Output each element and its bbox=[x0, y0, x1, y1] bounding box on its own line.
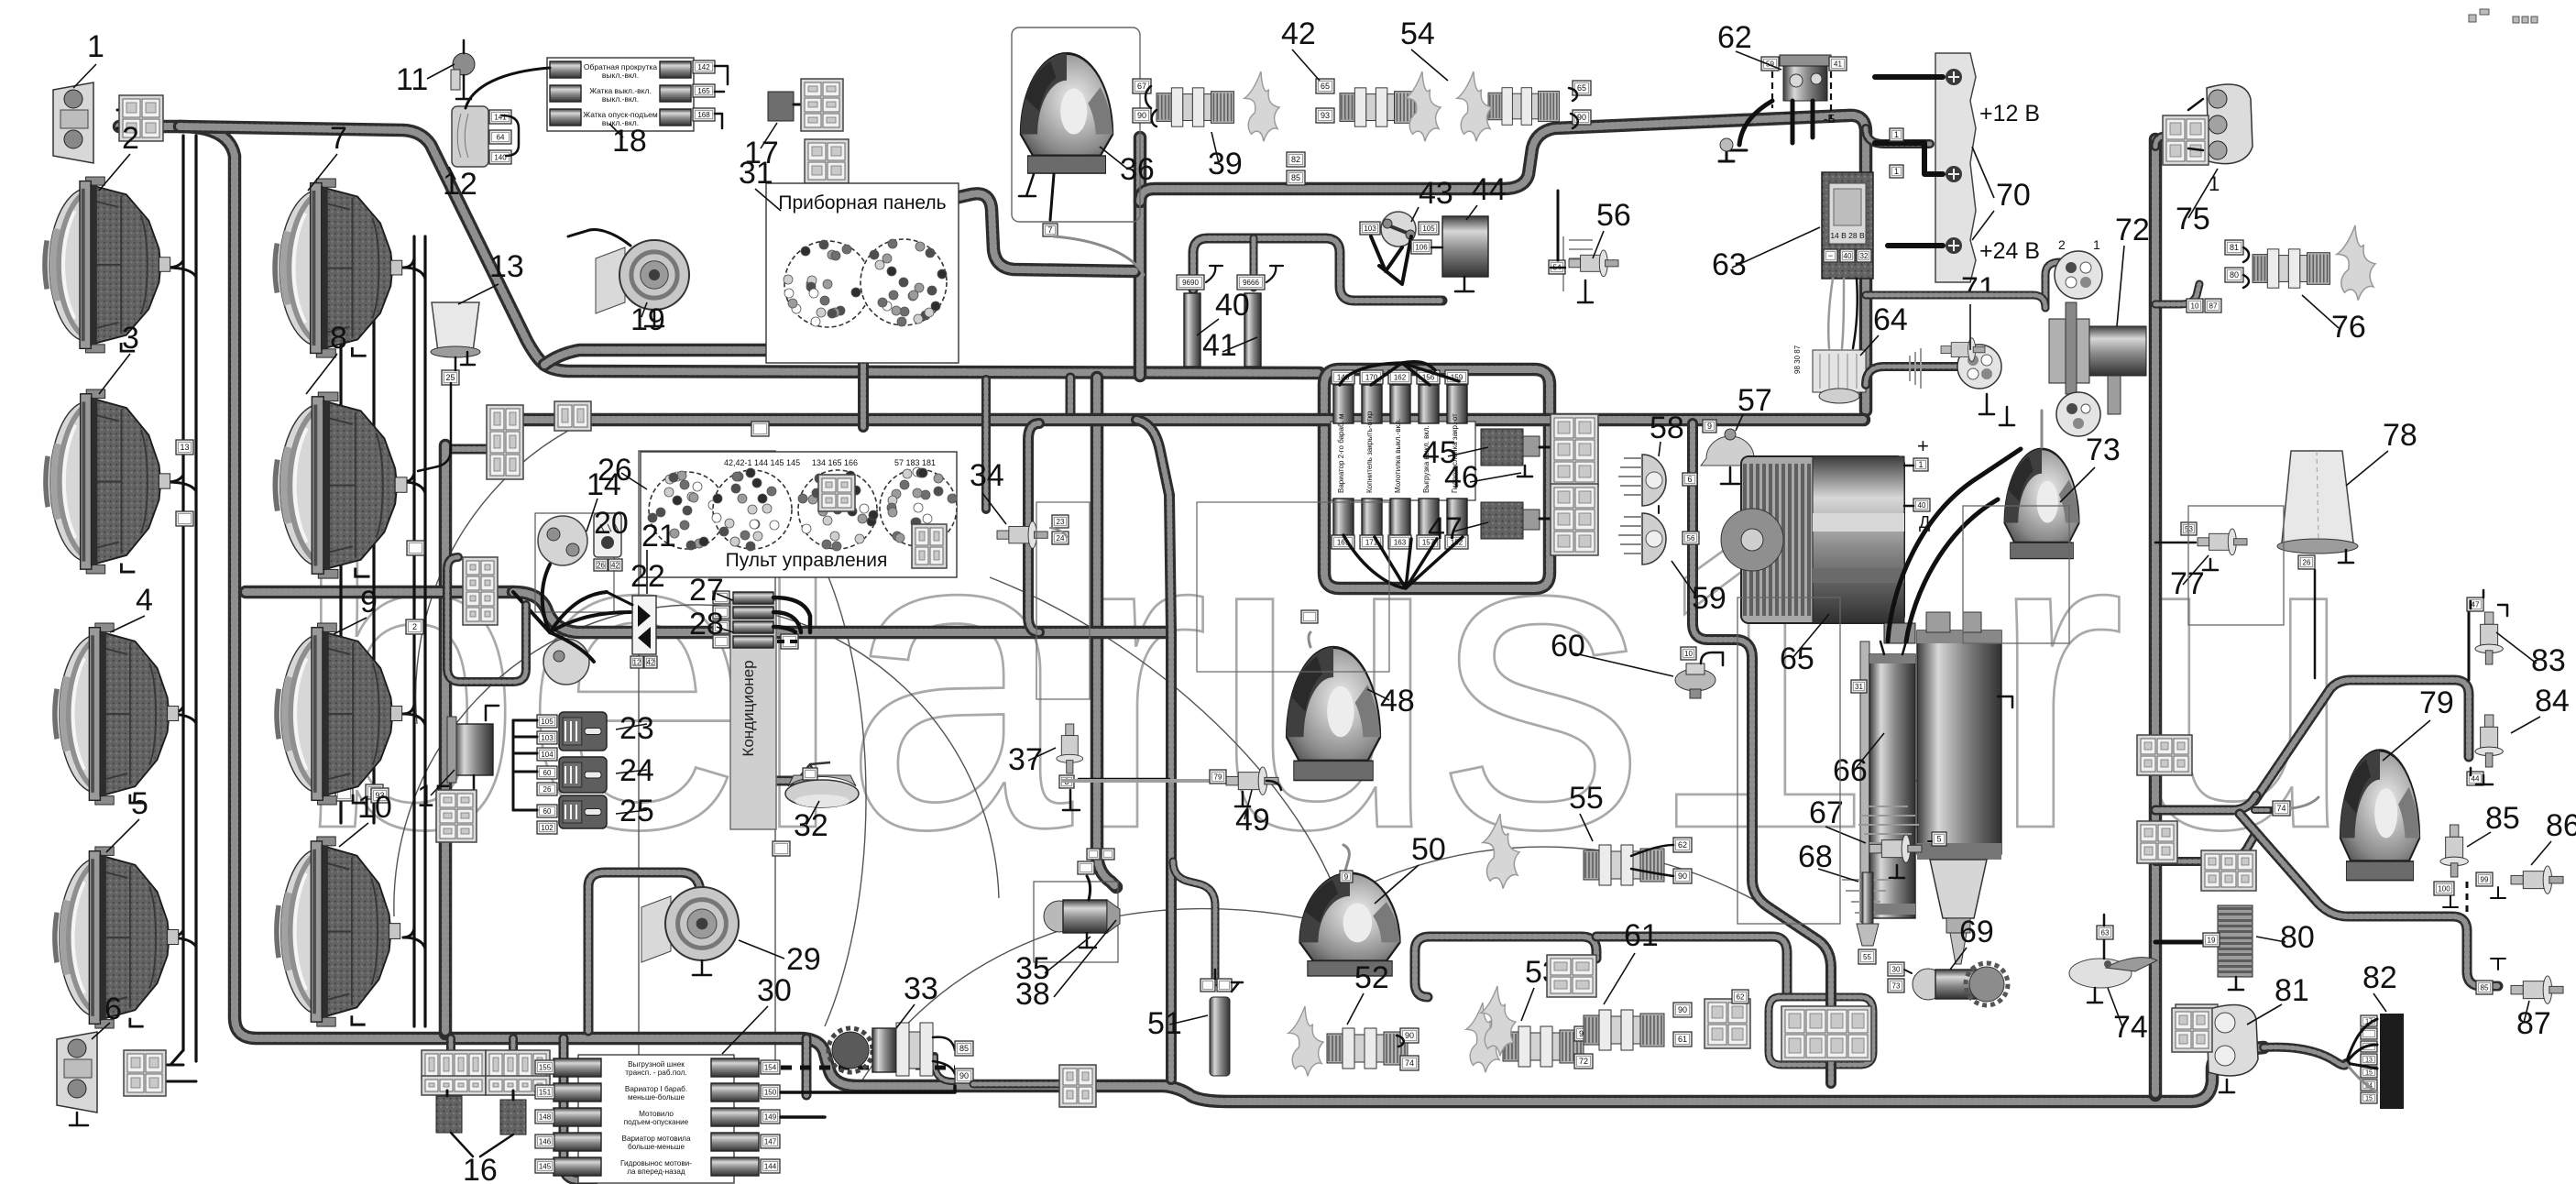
svg-text:41: 41 bbox=[1834, 60, 1842, 68]
svg-text:30: 30 bbox=[1892, 965, 1901, 973]
svg-text:Пульт управления: Пульт управления bbox=[726, 550, 888, 571]
svg-text:57: 57 bbox=[1737, 383, 1772, 418]
svg-text:42: 42 bbox=[647, 658, 655, 666]
svg-text:83: 83 bbox=[2531, 643, 2566, 678]
svg-text:144: 144 bbox=[764, 1162, 777, 1170]
svg-text:61: 61 bbox=[1624, 918, 1659, 953]
svg-text:выкл.-вкл.: выкл.-вкл. bbox=[602, 71, 639, 80]
svg-text:74: 74 bbox=[1405, 1058, 1414, 1068]
svg-text:90: 90 bbox=[1678, 1005, 1687, 1014]
svg-text:5: 5 bbox=[131, 786, 148, 821]
svg-text:102: 102 bbox=[541, 824, 554, 832]
svg-text:68: 68 bbox=[1798, 839, 1833, 874]
svg-text:57 183 181: 57 183 181 bbox=[894, 458, 936, 467]
svg-text:26: 26 bbox=[2303, 558, 2311, 566]
svg-text:13: 13 bbox=[180, 443, 189, 452]
svg-text:2: 2 bbox=[122, 121, 139, 156]
svg-text:99: 99 bbox=[2481, 875, 2489, 883]
svg-text:72: 72 bbox=[2115, 213, 2150, 247]
svg-text:49: 49 bbox=[1235, 803, 1270, 838]
svg-text:85: 85 bbox=[2481, 983, 2489, 992]
svg-text:11: 11 bbox=[396, 62, 428, 97]
svg-text:103: 103 bbox=[541, 734, 554, 742]
svg-text:3: 3 bbox=[122, 321, 139, 356]
svg-text:12: 12 bbox=[443, 167, 477, 202]
svg-text:19: 19 bbox=[630, 302, 665, 337]
svg-text:42: 42 bbox=[1281, 16, 1316, 51]
svg-text:34: 34 bbox=[970, 458, 1004, 493]
svg-text:трансп. - раб.пол.: трансп. - раб.пол. bbox=[625, 1069, 686, 1077]
svg-text:64: 64 bbox=[497, 133, 505, 141]
svg-text:42,42-1 144 145 145: 42,42-1 144 145 145 bbox=[724, 458, 800, 467]
svg-text:−: − bbox=[1783, 106, 1791, 120]
svg-text:+12 В: +12 В bbox=[1979, 101, 2040, 126]
svg-text:149: 149 bbox=[764, 1113, 777, 1121]
svg-text:2: 2 bbox=[2058, 237, 2066, 252]
svg-text:24: 24 bbox=[1057, 534, 1065, 543]
svg-text:1: 1 bbox=[1894, 130, 1899, 139]
svg-text:9666: 9666 bbox=[1243, 279, 1259, 287]
svg-text:2: 2 bbox=[412, 622, 417, 631]
svg-text:90: 90 bbox=[959, 1071, 969, 1080]
svg-text:меньше-больше: меньше-больше bbox=[628, 1093, 685, 1102]
svg-text:63: 63 bbox=[1712, 247, 1747, 282]
svg-text:141: 141 bbox=[494, 113, 507, 121]
svg-text:90: 90 bbox=[1678, 872, 1687, 881]
svg-text:54: 54 bbox=[1400, 16, 1435, 51]
svg-text:10: 10 bbox=[1684, 650, 1693, 658]
svg-text:26: 26 bbox=[597, 561, 605, 569]
svg-text:55: 55 bbox=[1569, 781, 1604, 816]
svg-text:1: 1 bbox=[2209, 172, 2220, 195]
svg-text:30: 30 bbox=[757, 973, 792, 1008]
svg-text:155: 155 bbox=[539, 1063, 552, 1071]
svg-text:65: 65 bbox=[1780, 641, 1814, 676]
svg-text:85: 85 bbox=[1291, 173, 1300, 182]
svg-text:82: 82 bbox=[2362, 960, 2397, 995]
svg-text:−: − bbox=[1828, 251, 1833, 260]
svg-text:61: 61 bbox=[1678, 1035, 1687, 1044]
svg-text:больше-меньше: больше-меньше bbox=[628, 1143, 685, 1151]
svg-text:1: 1 bbox=[87, 29, 104, 64]
svg-text:146: 146 bbox=[539, 1137, 552, 1146]
svg-text:Гидровынос мотови-: Гидровынос мотови- bbox=[620, 1159, 692, 1168]
svg-text:62: 62 bbox=[1717, 20, 1752, 55]
svg-text:8: 8 bbox=[330, 321, 347, 356]
svg-text:Копнитель закрыть-откр: Копнитель закрыть-откр bbox=[1365, 411, 1374, 493]
svg-text:52: 52 bbox=[1354, 960, 1389, 995]
svg-text:60: 60 bbox=[543, 807, 552, 816]
svg-text:145: 145 bbox=[539, 1162, 552, 1170]
svg-text:1: 1 bbox=[1894, 167, 1899, 176]
svg-text:154: 154 bbox=[764, 1063, 777, 1071]
svg-text:98 30 87: 98 30 87 bbox=[1793, 345, 1802, 374]
svg-text:42: 42 bbox=[611, 561, 619, 569]
svg-text:20: 20 bbox=[594, 506, 629, 541]
svg-text:87: 87 bbox=[2209, 301, 2218, 310]
svg-text:51: 51 bbox=[1147, 1006, 1182, 1041]
svg-text:9: 9 bbox=[1707, 422, 1712, 431]
svg-text:56: 56 bbox=[1687, 534, 1695, 543]
svg-text:58: 58 bbox=[1650, 411, 1684, 445]
svg-text:1: 1 bbox=[2093, 237, 2100, 252]
svg-text:140: 140 bbox=[494, 153, 507, 161]
svg-text:33: 33 bbox=[904, 971, 938, 1006]
svg-text:26: 26 bbox=[543, 785, 552, 794]
svg-text:19: 19 bbox=[2208, 936, 2216, 944]
svg-text:87: 87 bbox=[2516, 1006, 2551, 1041]
svg-text:6: 6 bbox=[104, 992, 122, 1026]
svg-text:142: 142 bbox=[697, 63, 710, 71]
svg-text:29: 29 bbox=[786, 942, 821, 977]
svg-text:86: 86 bbox=[2546, 808, 2576, 843]
svg-text:25: 25 bbox=[445, 373, 455, 382]
svg-text:37: 37 bbox=[1008, 742, 1043, 777]
svg-text:150: 150 bbox=[764, 1088, 777, 1096]
svg-text:31: 31 bbox=[739, 156, 773, 191]
svg-text:103: 103 bbox=[1364, 225, 1376, 233]
svg-text:ла вперед-назад: ла вперед-назад bbox=[627, 1168, 685, 1176]
svg-text:39: 39 bbox=[1208, 147, 1243, 181]
svg-text:66: 66 bbox=[1833, 753, 1868, 788]
svg-text:73: 73 bbox=[1892, 981, 1901, 990]
svg-text:147: 147 bbox=[764, 1137, 777, 1146]
svg-text:Кондиционер: Кондиционер bbox=[740, 660, 757, 756]
svg-text:82: 82 bbox=[1291, 155, 1300, 164]
svg-text:40: 40 bbox=[1918, 501, 1926, 510]
svg-text:76: 76 bbox=[2331, 310, 2366, 345]
svg-text:84: 84 bbox=[2535, 684, 2570, 718]
svg-text:148: 148 bbox=[539, 1113, 552, 1121]
svg-text:134 165 166: 134 165 166 bbox=[812, 458, 858, 467]
svg-text:60: 60 bbox=[543, 769, 552, 777]
svg-text:+: + bbox=[1917, 434, 1929, 457]
svg-text:81: 81 bbox=[2230, 243, 2239, 252]
svg-text:90: 90 bbox=[1137, 111, 1146, 120]
svg-text:43: 43 bbox=[1419, 176, 1453, 211]
svg-text:62: 62 bbox=[1678, 840, 1687, 850]
svg-text:67: 67 bbox=[1809, 795, 1844, 830]
svg-text:72: 72 bbox=[1579, 1057, 1588, 1066]
svg-text:+24 В: +24 В bbox=[1979, 238, 2040, 264]
svg-text:53: 53 bbox=[2185, 525, 2193, 533]
svg-text:21: 21 bbox=[641, 519, 676, 554]
svg-text:14: 14 bbox=[586, 467, 621, 502]
svg-text:10: 10 bbox=[2191, 301, 2199, 310]
svg-text:165: 165 bbox=[697, 87, 710, 95]
svg-text:60: 60 bbox=[1551, 629, 1585, 663]
svg-text:163: 163 bbox=[1394, 538, 1407, 546]
svg-text:44: 44 bbox=[1472, 172, 1507, 207]
svg-text:18: 18 bbox=[612, 124, 647, 159]
svg-text:85: 85 bbox=[959, 1044, 969, 1053]
svg-text:55: 55 bbox=[1863, 953, 1871, 961]
svg-text:73: 73 bbox=[2086, 433, 2121, 467]
svg-text:40: 40 bbox=[1215, 288, 1250, 323]
svg-text:27: 27 bbox=[689, 573, 724, 608]
svg-text:74: 74 bbox=[2276, 804, 2286, 813]
svg-text:15: 15 bbox=[2365, 1070, 2373, 1077]
svg-text:80: 80 bbox=[2280, 920, 2315, 955]
svg-text:31: 31 bbox=[1855, 683, 1863, 691]
svg-text:16: 16 bbox=[463, 1153, 498, 1184]
svg-text:77: 77 bbox=[2170, 566, 2205, 601]
svg-text:Вариатор 2-го бараб. м: Вариатор 2-го бараб. м bbox=[1337, 414, 1345, 493]
svg-text:7: 7 bbox=[1047, 225, 1052, 235]
svg-text:подъем-опускание: подъем-опускание bbox=[624, 1118, 689, 1126]
svg-text:46: 46 bbox=[1444, 460, 1479, 495]
svg-text:4: 4 bbox=[136, 583, 153, 618]
svg-text:38: 38 bbox=[1015, 977, 1050, 1012]
svg-text:Вариатор мотовила: Вариатор мотовила bbox=[621, 1135, 690, 1143]
svg-text:105: 105 bbox=[541, 718, 554, 726]
svg-text:70: 70 bbox=[1996, 178, 2031, 213]
svg-text:23: 23 bbox=[1057, 518, 1065, 526]
svg-text:48: 48 bbox=[1380, 684, 1415, 718]
svg-text:10: 10 bbox=[357, 790, 392, 825]
svg-text:15: 15 bbox=[2365, 1096, 2373, 1102]
svg-text:168: 168 bbox=[697, 111, 710, 119]
svg-text:81: 81 bbox=[2275, 973, 2309, 1008]
svg-text:75: 75 bbox=[2176, 202, 2210, 236]
svg-text:22: 22 bbox=[630, 559, 665, 594]
svg-text:106: 106 bbox=[1415, 243, 1428, 251]
svg-text:14 В 28 В: 14 В 28 В bbox=[1830, 231, 1865, 240]
svg-text:80: 80 bbox=[2230, 270, 2239, 280]
svg-text:36: 36 bbox=[1120, 152, 1155, 187]
svg-text:47: 47 bbox=[1428, 511, 1463, 546]
svg-text:Молотилка выкл.-вкл.: Молотилка выкл.-вкл. bbox=[1394, 419, 1402, 493]
svg-text:-Б: -Б bbox=[1824, 112, 1836, 126]
svg-text:100: 100 bbox=[2438, 884, 2450, 893]
svg-text:78: 78 bbox=[2383, 418, 2417, 453]
svg-text:44: 44 bbox=[2472, 774, 2480, 783]
svg-text:13: 13 bbox=[489, 249, 524, 284]
svg-text:12: 12 bbox=[633, 658, 641, 666]
svg-text:63: 63 bbox=[2101, 928, 2110, 937]
svg-text:105: 105 bbox=[1422, 225, 1435, 233]
svg-text:13: 13 bbox=[2365, 1058, 2373, 1064]
svg-text:1: 1 bbox=[1918, 460, 1923, 469]
svg-text:28: 28 bbox=[689, 607, 724, 641]
svg-text:162: 162 bbox=[1394, 373, 1407, 381]
svg-text:90: 90 bbox=[1405, 1031, 1414, 1040]
svg-text:151: 151 bbox=[539, 1088, 552, 1096]
svg-text:65: 65 bbox=[1321, 82, 1330, 91]
svg-text:5: 5 bbox=[1936, 835, 1941, 844]
svg-text:62: 62 bbox=[1737, 992, 1745, 1001]
svg-text:32: 32 bbox=[794, 808, 828, 843]
svg-text:41: 41 bbox=[1202, 328, 1237, 363]
svg-text:64: 64 bbox=[1873, 302, 1908, 337]
svg-text:50: 50 bbox=[1411, 832, 1446, 867]
svg-text:9: 9 bbox=[1344, 872, 1349, 881]
svg-text:9690: 9690 bbox=[1182, 279, 1199, 287]
svg-text:7: 7 bbox=[330, 121, 347, 156]
svg-text:56: 56 bbox=[1596, 198, 1631, 233]
svg-text:6: 6 bbox=[1687, 475, 1692, 484]
svg-text:79: 79 bbox=[2419, 685, 2454, 720]
svg-text:32: 32 bbox=[1860, 252, 1869, 260]
svg-text:Мотовило: Мотовило bbox=[639, 1110, 674, 1118]
svg-text:47: 47 bbox=[2472, 600, 2480, 608]
svg-text:79: 79 bbox=[1214, 773, 1222, 781]
svg-text:59: 59 bbox=[1692, 581, 1726, 616]
svg-text:Выгрузной шнек: Выгрузной шнек bbox=[628, 1060, 685, 1069]
svg-text:69: 69 bbox=[1959, 915, 1994, 949]
svg-text:71: 71 bbox=[1961, 271, 1996, 306]
svg-text:93: 93 bbox=[1321, 111, 1330, 120]
svg-text:Вариатор I бараб.: Вариатор I бараб. bbox=[625, 1085, 687, 1093]
svg-text:104: 104 bbox=[541, 751, 554, 759]
svg-text:выкл.-вкл.: выкл.-вкл. bbox=[602, 94, 639, 104]
svg-text:9: 9 bbox=[360, 585, 378, 619]
svg-text:Приборная панель: Приборная панель bbox=[778, 192, 946, 214]
svg-text:85: 85 bbox=[2485, 801, 2520, 836]
svg-text:65: 65 bbox=[1577, 83, 1586, 93]
svg-text:67: 67 bbox=[1137, 82, 1146, 91]
svg-text:40: 40 bbox=[1844, 252, 1852, 260]
